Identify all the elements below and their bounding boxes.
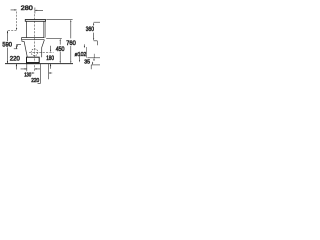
dim 760 bottom arrow <box>70 61 71 63</box>
dim 280 left arrow <box>14 9 16 10</box>
floor line <box>5 63 73 65</box>
outlet center line (dashed) <box>34 14 36 71</box>
dim 590 line <box>7 31 9 64</box>
cistern body right edge <box>44 21 45 37</box>
dim ø102 leader arrowhead <box>79 60 80 62</box>
dim 130 line <box>21 68 40 70</box>
dim 590 top arrow <box>7 31 8 33</box>
supply point arrow <box>16 28 17 30</box>
dim 180 line <box>50 46 52 69</box>
svg-text:280: 280 <box>21 5 33 12</box>
dim 360 bottom reference bracket <box>94 41 98 46</box>
dim 360 bottom arrow <box>93 38 94 40</box>
dim 220 left reference tick <box>14 48 18 50</box>
svg-text:590: 590 <box>2 41 12 48</box>
dim 760 top arrow <box>70 20 71 22</box>
svg-text:ø102: ø102 <box>75 52 87 58</box>
outlet pipe lower line <box>91 64 100 66</box>
outlet crosshair horizontal (dashed) <box>29 51 54 53</box>
dim 220 bottom line <box>31 72 53 74</box>
dim 360 line <box>93 25 95 39</box>
dim 760 line <box>70 22 72 61</box>
dim ø102 leader arrow <box>79 56 81 60</box>
cistern lid <box>25 20 45 22</box>
dim 280 line <box>11 8 43 14</box>
dim 220 bottom left arrow <box>32 72 34 73</box>
dim 450 extension line seat <box>46 38 62 40</box>
dim 220 left line <box>15 44 17 69</box>
dim 130 right arrow <box>34 68 36 69</box>
dim 220 bottom right arrow <box>49 72 51 73</box>
wall leader down arrow <box>83 44 85 46</box>
dim 450 line <box>59 41 61 62</box>
dim 220 left top arrow <box>16 47 17 49</box>
pipe dia up arrow <box>93 60 95 61</box>
dim 180 bottom arrow <box>50 64 51 66</box>
pedestal base thick line <box>26 62 39 64</box>
dim 130 left arrow <box>25 68 27 69</box>
svg-text:360: 360 <box>86 26 94 33</box>
pipe tick above <box>93 54 95 58</box>
dim 220 left bottom arrow <box>16 64 17 66</box>
dim 360 top reference line <box>94 21 100 23</box>
seat hinge double line <box>21 38 44 40</box>
svg-text:220: 220 <box>10 55 20 62</box>
dim 450 bottom arrow <box>60 61 61 63</box>
dim 760 extension line cistern top <box>46 19 72 21</box>
dim 590 bottom arrow <box>7 61 8 63</box>
pedestal foot <box>27 57 40 63</box>
pipe dia down arrow <box>92 62 94 63</box>
supply point projection dashed L <box>8 12 17 31</box>
svg-text:760: 760 <box>66 40 76 47</box>
underfloor extension wall <box>48 64 50 80</box>
dim 360 top arrow <box>93 22 94 24</box>
pedestal back profile <box>42 40 45 58</box>
small bracket near seat front <box>18 44 21 46</box>
underfloor extension pedestal back <box>38 64 41 84</box>
bowl front slope <box>24 41 27 57</box>
dim 280 right arrow <box>35 10 37 11</box>
outlet pipe upper line <box>88 57 101 59</box>
svg-text:180: 180 <box>46 55 54 62</box>
svg-text:450: 450 <box>56 46 65 53</box>
svg-text:130: 130 <box>24 72 31 78</box>
dim 180 top arrow <box>50 50 51 52</box>
outlet pipe lower hook <box>90 65 92 69</box>
bowl rim front lip <box>22 40 24 42</box>
dim 450 top arrow <box>60 39 61 41</box>
svg-text:220: 220 <box>31 78 39 84</box>
outlet circle ø102 (dashed) <box>31 49 38 56</box>
cistern body left edge <box>25 21 27 37</box>
underfloor extension foot front <box>26 64 28 72</box>
svg-text:35: 35 <box>84 59 90 65</box>
wall face vertical <box>85 47 87 58</box>
